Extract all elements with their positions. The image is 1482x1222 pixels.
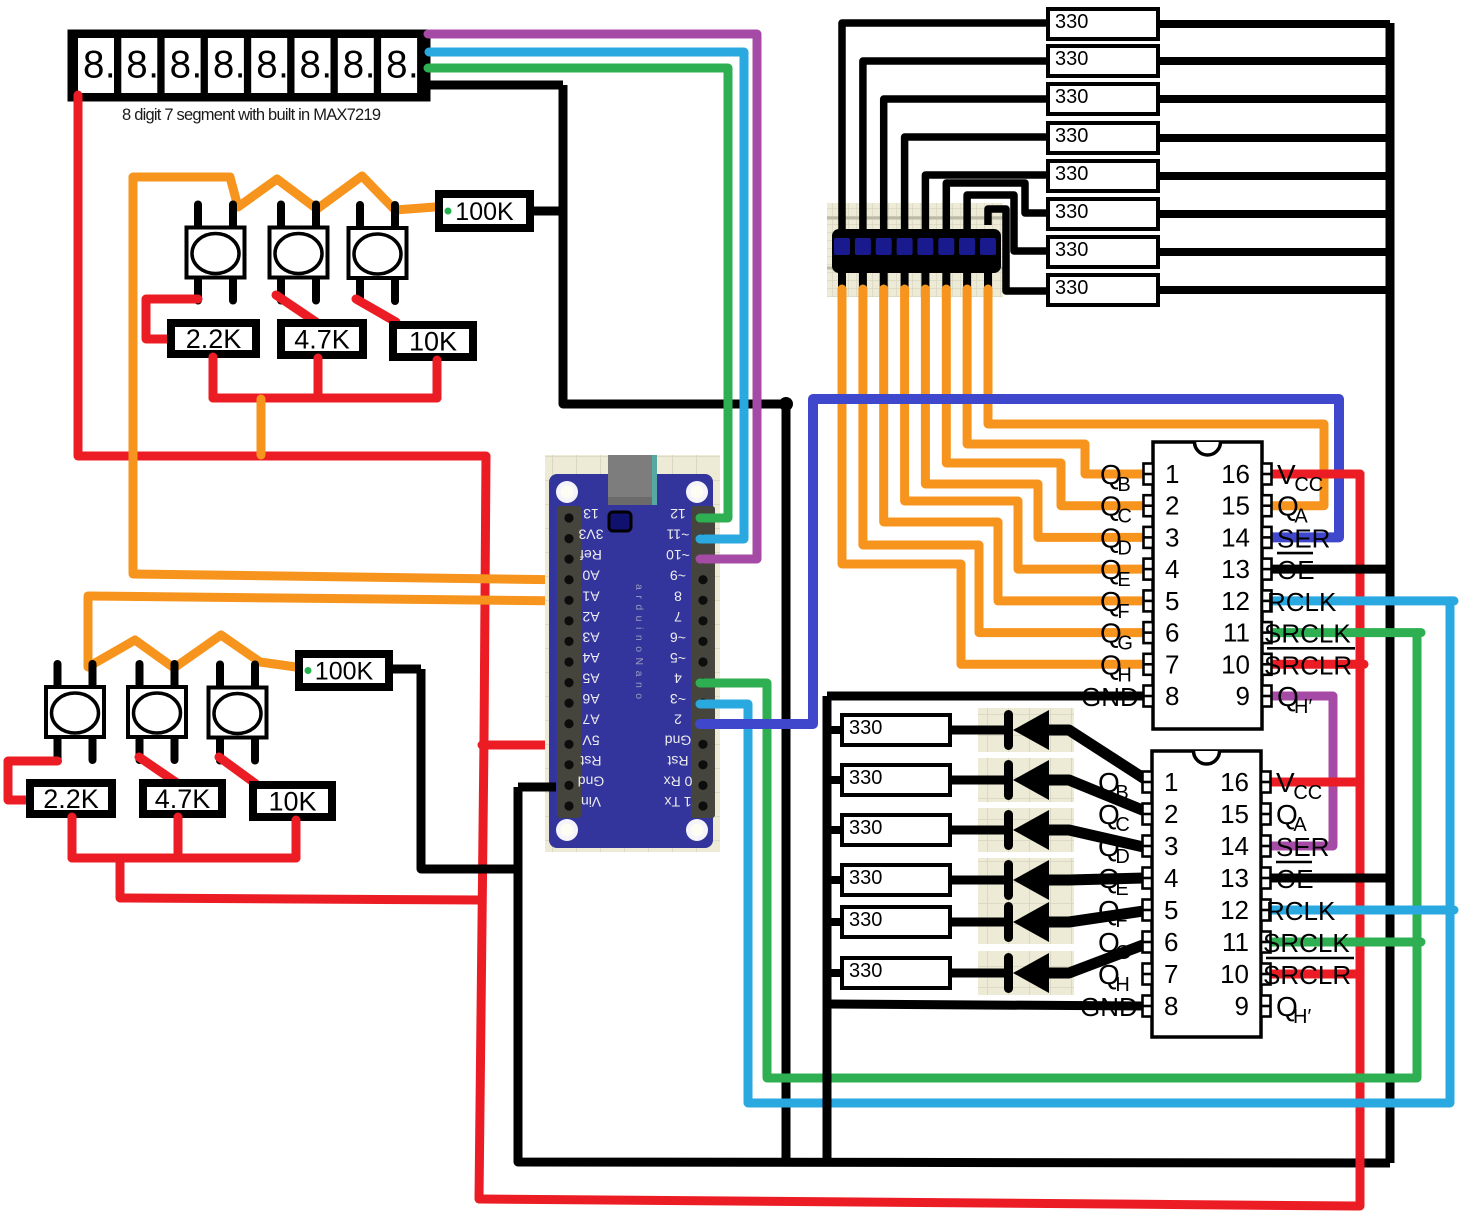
svg-text:4.7K: 4.7K xyxy=(294,325,350,355)
svg-text:9: 9 xyxy=(1236,681,1250,711)
resistor R12 330 (header) xyxy=(1048,123,1158,153)
svg-text:2: 2 xyxy=(1164,799,1178,829)
wire purple IC1 QH' to IC2 SER xyxy=(1270,696,1333,846)
resistor R20 330 (LED4) xyxy=(842,865,950,895)
wire red IC2 pin10 SRCLR stub xyxy=(1270,970,1360,979)
svg-text:10K: 10K xyxy=(409,327,457,357)
svg-text:OE: OE xyxy=(1276,864,1314,894)
svg-text:330: 330 xyxy=(1055,11,1088,33)
pin 5 / pin 12 xyxy=(1143,895,1271,925)
label SER xyxy=(1276,832,1329,862)
svg-text:6: 6 xyxy=(1164,927,1178,957)
pin 8 / pin 9 xyxy=(1143,991,1271,1021)
label IC1 QC xyxy=(1100,491,1132,528)
svg-text:Gnd: Gnd xyxy=(578,773,604,789)
wire orange header pin8 to IC1 pin15 QA xyxy=(988,289,1324,506)
svg-text:12: 12 xyxy=(670,506,686,522)
resistor R4 2.2K (bottom) xyxy=(30,783,112,814)
svg-text:1: 1 xyxy=(1165,459,1179,489)
svg-text:~10: ~10 xyxy=(666,547,690,563)
wire orange header pin5 to IC1 pin3 xyxy=(925,289,1146,537)
svg-text:4.7K: 4.7K xyxy=(155,784,211,814)
wire black header pin 5 to resistor xyxy=(925,175,1046,229)
svg-text:10: 10 xyxy=(1220,959,1249,989)
wire black R to LED D1 cathode xyxy=(952,726,1006,735)
svg-text:SRCLK: SRCLK xyxy=(1263,928,1350,958)
svg-text:Ref: Ref xyxy=(580,547,602,563)
svg-text:330: 330 xyxy=(849,817,882,839)
label QA xyxy=(1276,799,1307,836)
svg-text:14: 14 xyxy=(1221,522,1250,552)
pushbutton SW3 xyxy=(349,205,407,301)
wire black LED D1 anode to IC2 pin 1 xyxy=(1049,730,1148,781)
shift register U2 74HC595 xyxy=(1144,442,1272,729)
wire black LED D3 anode to IC2 pin 3 xyxy=(1049,830,1148,848)
wire red bottom group to 5V riser xyxy=(120,858,481,900)
svg-text:A6: A6 xyxy=(582,691,599,707)
wire red 10K bottom stub xyxy=(433,360,442,398)
resistor R16 330 (header) xyxy=(1048,275,1158,305)
label RCLK xyxy=(1267,587,1337,617)
svg-text:Gnd: Gnd xyxy=(665,732,691,748)
wire cyan Arduino pin3 RCLK net xyxy=(700,601,1450,1103)
svg-text:8.: 8. xyxy=(126,44,159,87)
svg-text:330: 330 xyxy=(1055,163,1088,185)
wire green display CS to pin 12 xyxy=(428,68,728,518)
wire black header pin 7 to resistor xyxy=(967,195,1046,251)
wire black bus to R330 D6 xyxy=(827,969,843,977)
wire red horizontal y=456 xyxy=(78,452,486,461)
svg-text:4: 4 xyxy=(1164,863,1178,893)
svg-text:8.: 8. xyxy=(170,44,203,87)
svg-text:~3: ~3 xyxy=(670,691,686,707)
wire orange header pin6 to IC1 pin2 xyxy=(946,289,1146,506)
svg-text:7: 7 xyxy=(1165,649,1179,679)
wire black 100K-top to gnd riser xyxy=(534,207,564,216)
svg-text:8: 8 xyxy=(1164,991,1178,1021)
resistor R11 330 (header) xyxy=(1048,84,1158,114)
svg-text:330: 330 xyxy=(1055,201,1088,223)
header body xyxy=(832,229,1001,273)
wire black display GND xyxy=(430,81,563,90)
pin 6 / pin 11 xyxy=(1144,618,1272,648)
label IC1 QF xyxy=(1100,586,1130,623)
header pin stubs below body xyxy=(838,270,846,291)
svg-text:7: 7 xyxy=(1164,959,1178,989)
wire purple display DIN to pin ~10 xyxy=(428,34,757,559)
svg-text:8.: 8. xyxy=(83,44,116,87)
wire orange header pin1 to IC1 pin7 xyxy=(842,289,1146,664)
svg-text:100K: 100K xyxy=(455,198,514,226)
svg-text:H′: H′ xyxy=(1294,696,1312,718)
pin 3 / pin 14 xyxy=(1143,831,1271,861)
svg-text:3: 3 xyxy=(1165,522,1179,552)
LED D3 xyxy=(1004,810,1049,850)
wire black header pin 3 to resistor xyxy=(884,99,1046,229)
svg-text:SRCLR: SRCLR xyxy=(1264,650,1352,680)
LED D3 breadboard pad xyxy=(978,808,1074,852)
label VCC xyxy=(1277,459,1323,496)
wire black ground bottom bus xyxy=(518,787,1390,1163)
svg-text:Rst: Rst xyxy=(667,753,688,769)
svg-text:13: 13 xyxy=(583,506,599,522)
svg-text:14: 14 xyxy=(1220,831,1249,861)
LED D2 xyxy=(1004,760,1049,800)
pushbutton SW6 xyxy=(209,665,267,761)
resistor R10 330 (header) xyxy=(1048,46,1158,76)
label IC2 QD xyxy=(1098,831,1130,868)
resistor R22 330 (LED6) xyxy=(842,958,950,988)
wire cyan display CLK to pin ~11 xyxy=(429,52,744,539)
svg-text:330: 330 xyxy=(1055,239,1088,261)
resistor R3 10K (top) xyxy=(393,325,473,357)
wire black header pin 6 to resistor xyxy=(946,183,1046,229)
svg-text:3V3: 3V3 xyxy=(578,527,603,543)
LED D5 xyxy=(1004,902,1049,942)
svg-text:A7: A7 xyxy=(582,712,599,728)
label OE xyxy=(1277,553,1315,585)
wire black 330 R16 to gnd riser xyxy=(1160,286,1390,294)
svg-text:A4: A4 xyxy=(582,650,599,666)
svg-text:15: 15 xyxy=(1220,799,1249,829)
wire green IC2 pin11 stub xyxy=(1270,938,1421,947)
label IC1 QH xyxy=(1100,649,1132,686)
svg-text:2: 2 xyxy=(1165,491,1179,521)
wire red resistor bus (top group) xyxy=(213,394,437,403)
wire black 330 R10 to gnd riser xyxy=(1160,57,1390,65)
svg-text:A5: A5 xyxy=(582,671,599,687)
svg-text:2.2K: 2.2K xyxy=(186,324,242,354)
wire cyan IC2 pin12 stub xyxy=(1270,906,1454,915)
svg-text:12: 12 xyxy=(1221,586,1250,616)
label QH prime xyxy=(1277,681,1312,718)
svg-text:330: 330 xyxy=(1055,86,1088,108)
svg-text:8: 8 xyxy=(674,588,682,604)
wire black R to LED D2 cathode xyxy=(952,776,1006,785)
pin 4 / pin 13 xyxy=(1143,863,1271,893)
label IC1 QG xyxy=(1100,618,1133,655)
wire black Arduino Gnd xyxy=(518,783,556,792)
svg-text:330: 330 xyxy=(849,717,882,739)
pin 1 / pin 16 xyxy=(1144,459,1272,489)
svg-text:SER: SER xyxy=(1276,832,1329,862)
wire red 4.7K bottom stub xyxy=(314,358,323,398)
svg-text:11: 11 xyxy=(1223,618,1250,648)
pin 8 / pin 9 xyxy=(1144,681,1272,711)
svg-text:8.: 8. xyxy=(343,44,376,87)
svg-text:16: 16 xyxy=(1221,459,1250,489)
svg-text:1: 1 xyxy=(1164,767,1178,797)
label QH prime xyxy=(1276,991,1311,1028)
label OE xyxy=(1276,862,1314,894)
wire black LED D5 anode to IC2 pin 5 xyxy=(1049,910,1150,922)
svg-text:330: 330 xyxy=(849,767,882,789)
wire red SW5 to 4.7K xyxy=(139,757,177,783)
svg-text:3: 3 xyxy=(1164,831,1178,861)
svg-text:11: 11 xyxy=(1222,927,1249,957)
svg-text:2.2K: 2.2K xyxy=(43,784,99,814)
wire red SW2 to 4.7K xyxy=(276,295,316,322)
svg-text:8 digit 7 segment with built i: 8 digit 7 segment with built in MAX7219 xyxy=(122,106,381,124)
svg-text:5: 5 xyxy=(1165,586,1179,616)
svg-text:GND: GND xyxy=(1080,992,1138,1022)
wire orange stub joining buses xyxy=(257,399,266,455)
svg-text:A3: A3 xyxy=(582,629,599,645)
wire black bus to R330 D1 xyxy=(827,726,843,734)
resistor R15 330 (header) xyxy=(1048,237,1158,267)
wire indigo Arduino pin2 to IC1 pin14 SER xyxy=(700,399,1339,724)
svg-text:RCLK: RCLK xyxy=(1267,587,1337,617)
svg-text:13: 13 xyxy=(1221,554,1250,584)
svg-text:V: V xyxy=(1276,767,1295,798)
svg-text:15: 15 xyxy=(1221,491,1250,521)
wire red 10K bottom stub xyxy=(292,820,301,858)
wire black bus to R330 D5 xyxy=(827,918,843,926)
svg-text:V: V xyxy=(1277,459,1296,490)
svg-text:8.: 8. xyxy=(213,44,246,87)
label SRCLK xyxy=(1263,928,1350,958)
wire black 100K-bottom to Gnd wire xyxy=(421,669,518,869)
label IC2 QC xyxy=(1098,799,1130,836)
orange zigzag wire top button group xyxy=(133,176,435,572)
svg-text:8: 8 xyxy=(1165,681,1179,711)
svg-text:7: 7 xyxy=(674,609,682,625)
wire black header pin 8 to resistor xyxy=(988,209,1046,291)
svg-text:SRCLR: SRCLR xyxy=(1263,960,1351,990)
svg-text:6: 6 xyxy=(1165,618,1179,648)
svg-text:8.: 8. xyxy=(386,44,419,87)
svg-text:Vin: Vin xyxy=(581,794,601,810)
svg-text:10: 10 xyxy=(1221,649,1250,679)
wire black gnd to IC2 pin8 xyxy=(827,1004,1146,1006)
svg-text:Rst: Rst xyxy=(580,753,601,769)
resistor R13 330 (header) xyxy=(1048,161,1158,191)
svg-text:A0: A0 xyxy=(582,568,599,584)
wire red 2.2K bottom stub xyxy=(209,357,218,398)
junction display gnd node xyxy=(779,397,793,411)
wire orange header pin4 to IC1 pin4 xyxy=(905,289,1146,569)
label IC2 QE xyxy=(1098,863,1129,900)
wire black LED D2 anode to IC2 pin 2 xyxy=(1049,780,1152,814)
wire black 330 R12 to gnd riser xyxy=(1160,134,1390,142)
wire black LED D4 anode to IC2 pin 4 xyxy=(1049,878,1146,880)
svg-text:OE: OE xyxy=(1277,555,1315,585)
svg-text:~6: ~6 xyxy=(670,629,686,645)
wire red vertical x~484 xyxy=(479,456,486,1199)
LED D5 breadboard pad xyxy=(978,900,1074,944)
label VCC xyxy=(1276,767,1322,804)
pin 1 / pin 16 xyxy=(1143,767,1271,797)
svg-text:330: 330 xyxy=(1055,125,1088,147)
wire black header pin 2 to resistor xyxy=(863,61,1046,229)
svg-text:A2: A2 xyxy=(582,609,599,625)
wire red resistor bus (bottom group) xyxy=(72,854,296,863)
resistor R14 330 (header) xyxy=(1048,199,1158,229)
wire black R to LED D6 cathode xyxy=(952,969,1006,978)
svg-text:16: 16 xyxy=(1220,767,1249,797)
wire black LED D6 anode to IC2 pin 6 xyxy=(1049,942,1151,973)
resistor R7 100K (top) xyxy=(439,194,530,228)
svg-text:13: 13 xyxy=(1220,863,1249,893)
wire red SW1 to 2.2K xyxy=(146,299,198,339)
wire cyan IC1 pin12 stub xyxy=(1271,596,1454,605)
wire black header pin 4 to resistor xyxy=(905,137,1046,229)
svg-text:~11: ~11 xyxy=(666,527,689,543)
wire black bus to R330 D3 xyxy=(827,826,843,834)
label IC2 QH xyxy=(1098,959,1130,996)
svg-text:~5: ~5 xyxy=(670,650,686,666)
orange zigzag wire bottom button group xyxy=(88,598,296,668)
svg-text:2: 2 xyxy=(674,712,682,728)
pin 5 / pin 12 xyxy=(1144,586,1272,616)
wire red: display VCC down left side xyxy=(74,95,83,456)
svg-text:330: 330 xyxy=(1055,277,1088,299)
wire black R to LED D4 cathode xyxy=(952,876,1006,885)
wire orange to Arduino A0 xyxy=(133,574,574,580)
svg-text:1 Tx: 1 Tx xyxy=(665,794,692,810)
svg-text:330: 330 xyxy=(849,867,882,889)
Arduino Nano U1 xyxy=(545,455,720,852)
wire red IC1 pin10 SRCLR stub xyxy=(1271,660,1364,669)
wire black IC1 pin13 OE stub xyxy=(1271,565,1394,574)
pin 7 / pin 10 xyxy=(1144,649,1272,679)
pin 7 / pin 10 xyxy=(1143,959,1271,989)
pin 4 / pin 13 xyxy=(1144,554,1272,584)
svg-text:arduinoNano: arduinoNano xyxy=(633,584,645,705)
svg-text:5V: 5V xyxy=(582,732,600,748)
pin 2 / pin 15 xyxy=(1143,799,1271,829)
svg-text:0 Rx: 0 Rx xyxy=(664,773,693,789)
LED D2 breadboard pad xyxy=(978,758,1074,802)
wire black right gnd riser x=1390 xyxy=(1386,23,1395,1163)
pin 6 / pin 11 xyxy=(1143,927,1271,957)
wire black IC2 pin13 OE stub xyxy=(1270,874,1394,883)
wire red 2.2K bottom stub xyxy=(68,817,77,858)
svg-text:H′: H′ xyxy=(1293,1006,1311,1028)
wire orange to Arduino A1 xyxy=(88,596,572,601)
wire black LED gnd bus vertical xyxy=(823,696,832,1163)
svg-text:SER: SER xyxy=(1277,523,1330,553)
svg-text:330: 330 xyxy=(1055,48,1088,70)
label IC2 QB xyxy=(1098,767,1129,804)
svg-text:10K: 10K xyxy=(268,787,316,817)
svg-text:5: 5 xyxy=(1164,895,1178,925)
LED D1 xyxy=(1004,710,1049,750)
wire orange header pin7 to IC1 pin1 xyxy=(967,289,1146,474)
wire red SW6 to 10K xyxy=(219,757,256,784)
resistor R18 330 (LED2) xyxy=(842,765,950,795)
resistor R17 330 (LED1) xyxy=(842,715,950,745)
wire black gnd riser x=786 xyxy=(782,404,791,1163)
wire black 330 R9 to gnd riser xyxy=(1160,20,1390,28)
resistor R8 100K (bottom) xyxy=(299,654,389,687)
svg-text:12: 12 xyxy=(1220,895,1249,925)
resistor R6 10K (bottom) xyxy=(253,785,332,817)
wire red SW3 to 10K xyxy=(356,299,396,322)
wire red bottom bus and right VCC riser x=1360 xyxy=(480,474,1360,1206)
label SRCLR xyxy=(1263,958,1354,990)
wire black 330 R13 to gnd riser xyxy=(1160,172,1390,180)
shift register U3 74HC595 xyxy=(1143,751,1271,1037)
wire black bus to R330 D2 xyxy=(827,776,843,784)
wire red 5V to Arduino xyxy=(482,741,571,750)
wire orange header pin3 to IC1 pin5 xyxy=(884,289,1146,601)
pushbutton SW1 xyxy=(187,205,245,301)
label IC1 QB xyxy=(1100,459,1131,496)
wire red IC2 pin16 VCC stub xyxy=(1270,778,1360,787)
svg-text:8.: 8. xyxy=(256,44,289,87)
wire black 100K-bottom stub xyxy=(393,665,421,674)
resistor R5 4.7K (bottom) xyxy=(143,783,222,814)
svg-text:8.: 8. xyxy=(300,44,333,87)
resistor R1 2.2K (top) xyxy=(171,323,256,354)
wire orange header pin2 to IC1 pin6 xyxy=(863,289,1146,633)
wire black 330 R11 to gnd riser xyxy=(1160,95,1390,103)
svg-text:~9: ~9 xyxy=(670,568,686,584)
8-pin header / DIP module J1 xyxy=(827,203,1003,297)
wire green IC1 pin11 stub xyxy=(1271,628,1421,637)
LED D6 breadboard pad xyxy=(978,951,1074,995)
resistor R2 4.7K (top) xyxy=(281,323,363,355)
resistor R19 330 (LED3) xyxy=(842,815,950,845)
svg-text:9: 9 xyxy=(1235,991,1249,1021)
label QA xyxy=(1277,491,1308,528)
svg-text:GND: GND xyxy=(1081,682,1139,712)
label IC2 QF xyxy=(1098,895,1128,932)
svg-text:SRCLK: SRCLK xyxy=(1264,619,1351,649)
pin 2 / pin 15 xyxy=(1144,491,1272,521)
label SER xyxy=(1277,523,1330,553)
pushbutton SW5 xyxy=(128,664,186,760)
label SRCLK xyxy=(1264,619,1351,649)
svg-text:4: 4 xyxy=(1165,554,1179,584)
wire red SW4 to 2.2K xyxy=(8,761,58,800)
label IC1 QD xyxy=(1100,522,1132,559)
wire green Arduino pin4 SRCLK net xyxy=(700,633,1417,1078)
label IC2 QG xyxy=(1098,927,1131,964)
label IC1 QE xyxy=(1100,554,1131,591)
LED D6 xyxy=(1004,953,1049,993)
resistor R21 330 (LED5) xyxy=(842,907,950,937)
wire red 4.7K bottom stub xyxy=(174,817,183,858)
pin 3 / pin 14 xyxy=(1144,522,1272,552)
label SRCLR xyxy=(1264,648,1355,680)
wire black 330 R15 to gnd riser xyxy=(1160,248,1390,256)
wire black 330 R14 to gnd riser xyxy=(1160,210,1390,218)
svg-text:330: 330 xyxy=(849,909,882,931)
wire black gnd to IC1 pin8 xyxy=(827,692,1146,701)
pushbutton SW4 xyxy=(46,664,104,760)
8-digit 7-segment display module DS1 (MAX7219) xyxy=(72,34,426,97)
LED D4 breadboard pad xyxy=(978,858,1074,902)
svg-text:RCLK: RCLK xyxy=(1266,896,1336,926)
label RCLK xyxy=(1266,896,1336,926)
wire red IC1 pin16 VCC stub xyxy=(1271,470,1360,479)
LED D1 breadboard pad xyxy=(978,708,1074,752)
wire black bus to R330 D4 xyxy=(827,876,843,884)
svg-text:A1: A1 xyxy=(582,588,599,604)
svg-text:100K: 100K xyxy=(315,658,374,686)
wire black R to LED D3 cathode xyxy=(952,826,1006,835)
svg-text:4: 4 xyxy=(674,671,682,687)
wire black header pin 1 to resistor xyxy=(842,23,1046,229)
resistor R9 330 (header) xyxy=(1048,9,1158,39)
pushbutton SW2 xyxy=(270,205,328,301)
wire black R to LED D5 cathode xyxy=(952,918,1006,927)
LED D4 xyxy=(1004,860,1049,900)
svg-text:330: 330 xyxy=(849,960,882,982)
